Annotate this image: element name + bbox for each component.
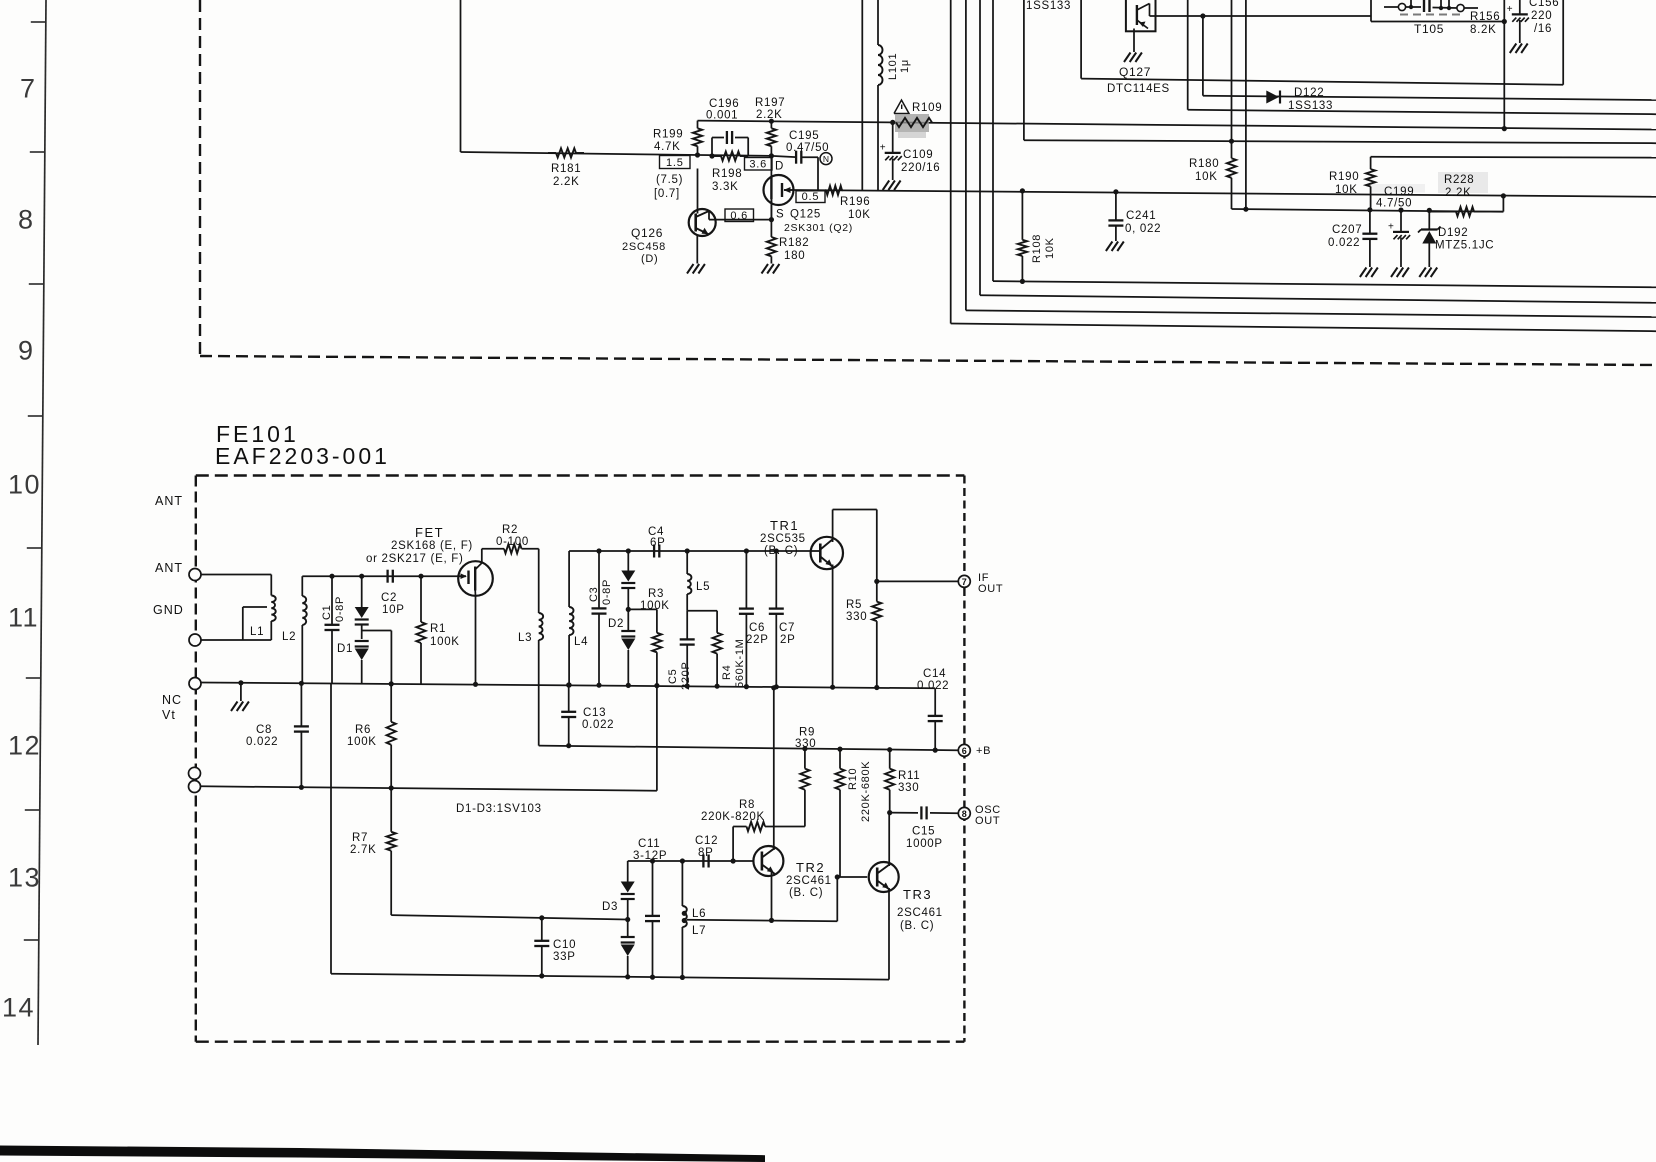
svg-text:+: +	[1507, 4, 1513, 15]
svg-text:3.6: 3.6	[749, 159, 767, 171]
inductor L3	[518, 549, 543, 746]
svg-text:33P: 33P	[553, 951, 576, 963]
wire first stage top line	[302, 575, 458, 577]
svg-text:+: +	[1388, 222, 1394, 233]
ground Q126	[687, 264, 705, 274]
svg-text:L5: L5	[696, 581, 710, 593]
label C199	[1376, 186, 1414, 210]
svg-text:TR1: TR1	[770, 518, 799, 533]
svg-text:3.3K: 3.3K	[712, 181, 738, 193]
resistor R2	[482, 524, 539, 553]
capacitor C4	[648, 526, 665, 558]
svg-text:R180: R180	[1189, 158, 1219, 170]
wire D2 mid to R3	[626, 607, 657, 612]
resistor R3	[652, 609, 661, 790]
label NC Vt	[162, 693, 182, 722]
diode D122 1SS133	[1266, 87, 1333, 112]
svg-text:C12: C12	[695, 835, 718, 847]
svg-text:2SK168 (E, F): 2SK168 (E, F)	[391, 540, 473, 552]
svg-text:C15: C15	[912, 826, 935, 838]
bottom scan bar	[0, 1146, 765, 1162]
wire C195 down to gate line	[817, 157, 819, 190]
value box 3.6	[745, 158, 773, 171]
wire TR2 collector	[771, 685, 776, 850]
svg-text:0-8P: 0-8P	[334, 596, 346, 622]
capacitor C7	[769, 548, 796, 689]
wire vertical x1246	[1243, 0, 1248, 212]
transistor TR1 2SC535	[760, 518, 843, 569]
svg-text:0.022: 0.022	[917, 680, 949, 692]
wire ANT to L1	[201, 575, 271, 596]
wire bus A x862	[861, 0, 863, 191]
wire TR2 emitter	[769, 872, 774, 923]
ruler line	[38, 0, 46, 1045]
svg-text:8P: 8P	[698, 847, 713, 859]
resistor R182	[767, 220, 809, 264]
resistor R156 label	[1470, 11, 1500, 36]
svg-text:GND: GND	[153, 603, 184, 617]
wire top rail	[698, 121, 1656, 130]
svg-text:R197: R197	[755, 97, 785, 109]
inductor L5	[685, 548, 711, 610]
svg-text:FET: FET	[415, 525, 444, 540]
svg-text:Q126: Q126	[631, 226, 663, 240]
svg-text:0.022: 0.022	[582, 719, 614, 731]
wire OSC line C15	[890, 812, 918, 814]
wire vertical x1188	[1188, 0, 1656, 114]
resistor R198	[712, 152, 748, 194]
resistor R181	[548, 148, 584, 188]
svg-text:/16: /16	[1534, 23, 1552, 35]
resistor R1	[416, 574, 459, 684]
svg-text:(B. C): (B. C)	[900, 920, 934, 932]
svg-text:1000P: 1000P	[906, 838, 943, 850]
svg-text:2.2K: 2.2K	[553, 176, 579, 188]
transistor TR3 2SC461	[869, 862, 943, 932]
resistor R9	[795, 727, 816, 827]
svg-text:ANT: ANT	[155, 494, 183, 508]
svg-text:(B. C): (B. C)	[764, 545, 798, 557]
wire +B line	[539, 746, 965, 751]
svg-text:R190: R190	[1329, 171, 1359, 183]
svg-text:R156: R156	[1470, 11, 1500, 23]
svg-text:C10: C10	[553, 939, 576, 951]
svg-text:0.6: 0.6	[730, 210, 748, 222]
label ANT 1	[155, 494, 183, 508]
svg-text:R109: R109	[912, 102, 942, 114]
ground D192	[1419, 268, 1437, 278]
svg-text:22P: 22P	[746, 634, 769, 646]
svg-text:0.022: 0.022	[1328, 237, 1360, 249]
ground bus terminal branch	[231, 680, 249, 711]
svg-text:4.7K: 4.7K	[654, 141, 680, 153]
svg-text:[0.7]: [0.7]	[654, 188, 680, 200]
svg-text:6P: 6P	[650, 537, 665, 549]
svg-text:DTC114ES: DTC114ES	[1107, 83, 1170, 95]
svg-text:+B: +B	[976, 745, 991, 757]
svg-text:C1: C1	[321, 605, 333, 620]
svg-text:10: 10	[8, 470, 41, 500]
svg-text:1.5: 1.5	[666, 157, 684, 169]
terminal GND	[189, 634, 201, 646]
resistor R228	[1429, 174, 1506, 216]
capacitor C199 electrolytic	[1388, 208, 1410, 268]
svg-text:C14: C14	[923, 668, 946, 680]
capacitor C5	[667, 611, 695, 690]
wire vertical x1203 D122 feed	[1202, 16, 1204, 96]
label FE101	[216, 421, 299, 447]
svg-text:R9: R9	[799, 727, 815, 739]
svg-text:R182: R182	[779, 237, 809, 249]
svg-text:R1: R1	[430, 623, 446, 635]
wire IF OUT line	[874, 579, 958, 584]
svg-text:D122: D122	[1294, 87, 1324, 99]
wire bus vertical x980	[980, 0, 1656, 303]
capacitor C3	[588, 548, 613, 687]
capacitor C14	[917, 668, 949, 753]
wire C199 row line	[1232, 209, 1504, 212]
svg-text:0.022: 0.022	[246, 736, 278, 748]
svg-text:2SC535: 2SC535	[760, 533, 806, 545]
warning triangle	[894, 100, 909, 114]
svg-text:R6: R6	[355, 724, 371, 736]
svg-text:L7: L7	[692, 925, 706, 937]
label D1-D3 1SV103	[456, 803, 542, 815]
wire TR3 emitter	[888, 888, 890, 980]
svg-text:R2: R2	[502, 524, 518, 536]
wire vertical x1024 to R180 line	[1023, 0, 1025, 140]
svg-text:C241: C241	[1126, 210, 1156, 222]
svg-text:ANT: ANT	[155, 561, 183, 575]
svg-text:C3: C3	[588, 587, 600, 602]
resistor R180	[1189, 158, 1236, 209]
svg-text:1SS133: 1SS133	[1288, 100, 1333, 112]
capacitor C156 electrolytic	[1507, 0, 1559, 43]
svg-text:13: 13	[8, 863, 41, 893]
terminal NC2	[189, 767, 201, 779]
wire vertical x1081	[1080, 0, 1082, 79]
label ANT 2	[155, 561, 183, 575]
resistor R196	[825, 186, 871, 221]
resistor R109 highlighted	[888, 102, 942, 138]
svg-text:12: 12	[8, 731, 41, 761]
resistor R8	[701, 799, 805, 864]
svg-text:Vt: Vt	[162, 708, 176, 722]
wire D122 line	[1203, 96, 1656, 100]
svg-text:or 2SK217 (E, F): or 2SK217 (E, F)	[366, 553, 463, 565]
svg-text:2SC458: 2SC458	[622, 241, 666, 253]
svg-text:2SC461: 2SC461	[786, 875, 832, 887]
terminal 8 OSC OUT	[958, 804, 1001, 827]
svg-text:S: S	[776, 209, 784, 221]
capacitor C207	[1328, 207, 1377, 267]
transistor FET 2SK168	[366, 525, 493, 596]
value box 0.6	[725, 209, 754, 222]
inductor L101	[878, 0, 911, 191]
node R199 bottom	[695, 152, 700, 157]
svg-text:D: D	[775, 161, 784, 173]
svg-text:R8: R8	[739, 799, 755, 811]
wire TR2 base line	[628, 860, 754, 862]
varactor D3	[602, 861, 635, 979]
ground R182	[762, 264, 780, 274]
gate line to right edge	[794, 190, 1656, 197]
svg-text:6: 6	[962, 746, 967, 756]
svg-text:R7: R7	[352, 832, 368, 844]
wire Q126 collector row 0.6	[709, 199, 774, 222]
label 1SS133 top	[1026, 0, 1071, 12]
svg-text:8: 8	[18, 205, 35, 235]
svg-text:7: 7	[20, 74, 37, 104]
svg-text:R198: R198	[712, 168, 742, 180]
label D pin	[775, 161, 784, 173]
svg-text:560K-1M: 560K-1M	[734, 638, 746, 688]
wire main line R181 row	[461, 152, 796, 157]
svg-text:0-100: 0-100	[496, 536, 529, 548]
svg-text:D192: D192	[1438, 227, 1468, 239]
capacitor C196 loop	[706, 98, 748, 159]
svg-text:OUT: OUT	[978, 583, 1003, 595]
highlight R228 area	[1370, 172, 1488, 193]
svg-text:10K: 10K	[1335, 184, 1358, 196]
svg-text:0.5: 0.5	[802, 191, 820, 203]
resistor R190	[1329, 157, 1656, 210]
svg-text:TR3: TR3	[903, 887, 932, 902]
label R3 100K	[640, 588, 670, 612]
svg-text:NC: NC	[162, 693, 182, 707]
node C109 top	[890, 120, 895, 125]
svg-text:C13: C13	[583, 707, 606, 719]
svg-text:(7.5): (7.5)	[656, 174, 683, 186]
wire vertical x1504	[1502, 0, 1507, 131]
inductor L2	[282, 576, 307, 683]
resistor R199	[653, 121, 702, 155]
svg-text:C7: C7	[779, 622, 795, 634]
svg-text:C156: C156	[1529, 0, 1559, 9]
wire D1 mid branch	[362, 631, 392, 684]
svg-text:R3: R3	[648, 588, 664, 600]
svg-text:L1: L1	[250, 626, 264, 638]
transistor TR2 2SC461	[753, 846, 831, 899]
svg-text:TR2: TR2	[796, 860, 825, 875]
svg-text:0, 022: 0, 022	[1125, 223, 1161, 235]
svg-text:8.2K: 8.2K	[1470, 24, 1496, 36]
svg-text:100K: 100K	[430, 636, 460, 648]
wire R7 to D3 line	[391, 915, 627, 919]
wire second stage top line	[569, 551, 811, 607]
svg-text:C207: C207	[1332, 224, 1362, 236]
wire vertical x1232 R180 column	[1229, 0, 1234, 158]
wire vertical into R181 line	[460, 0, 462, 152]
resistor R11	[885, 747, 920, 815]
wire TR3 collector	[888, 813, 890, 866]
svg-text:0.001: 0.001	[706, 110, 738, 122]
svg-text:C6: C6	[749, 622, 765, 634]
upper block dashed border	[200, 0, 1656, 365]
svg-text:330: 330	[898, 782, 919, 794]
wire R180 top line	[1024, 140, 1656, 143]
svg-text:2.2K: 2.2K	[756, 109, 782, 121]
svg-text:C196: C196	[709, 98, 739, 110]
ground C207	[1360, 268, 1378, 278]
wire T105 bottom row R156	[1371, 0, 1507, 24]
svg-text:R108: R108	[1031, 234, 1043, 263]
wire TR1 emitter	[830, 565, 835, 690]
wire C1 return column	[330, 683, 332, 973]
value box 1.5	[654, 156, 690, 201]
label GND	[153, 603, 184, 617]
zener D192 MTZ5.1JC	[1418, 208, 1494, 267]
wire C156 feed line	[1081, 79, 1563, 85]
capacitor C6	[739, 548, 769, 689]
capacitor C2	[381, 570, 405, 616]
wire Q126 emitter	[696, 236, 698, 264]
svg-text:(B. C): (B. C)	[789, 887, 823, 899]
svg-text:R228: R228	[1444, 174, 1474, 186]
transistor Q125 2SK301 FET	[764, 156, 853, 234]
svg-text:L101: L101	[887, 53, 899, 80]
wire bus vertical x951	[951, 0, 1656, 331]
svg-text:N: N	[823, 154, 829, 164]
ground C156	[1510, 44, 1528, 54]
inductor L6 L7	[680, 858, 706, 980]
svg-text:C195: C195	[789, 130, 819, 142]
wire R196 line to right edge	[843, 190, 1656, 196]
svg-text:100K: 100K	[347, 736, 377, 748]
svg-text:R181: R181	[551, 163, 581, 175]
svg-text:C2: C2	[381, 592, 397, 604]
svg-text:D3: D3	[602, 901, 618, 913]
svg-text:Q127: Q127	[1119, 65, 1151, 79]
svg-text:11: 11	[8, 603, 39, 633]
svg-text:220/16: 220/16	[901, 162, 940, 174]
terminal 6 +B	[958, 744, 991, 757]
svg-text:C11: C11	[638, 838, 660, 850]
svg-text:D2: D2	[608, 618, 624, 630]
wire Q127 collector to T105	[1200, 13, 1371, 18]
wire bus to C14	[934, 688, 936, 715]
capacitor C13	[561, 682, 614, 748]
svg-text:C109: C109	[903, 149, 933, 161]
svg-text:C199: C199	[1384, 186, 1414, 198]
svg-text:14: 14	[2, 993, 35, 1023]
ground C241	[1106, 242, 1124, 252]
svg-text:+: +	[880, 143, 886, 154]
svg-text:10K: 10K	[1195, 171, 1218, 183]
resistor R4	[713, 611, 747, 689]
svg-text:R10: R10	[847, 768, 859, 790]
capacitor C241	[1108, 189, 1161, 241]
svg-text:OUT: OUT	[975, 815, 1000, 827]
capacitor C12	[695, 835, 718, 868]
transformer T105	[1384, 0, 1478, 36]
transistor Q127 DTC114ES	[1107, 0, 1203, 95]
resistor R108	[1018, 188, 1056, 284]
svg-text:2.2K: 2.2K	[1445, 187, 1471, 199]
svg-text:1SS133: 1SS133	[1026, 0, 1071, 12]
capacitor C10	[534, 915, 576, 978]
svg-text:9: 9	[18, 336, 35, 366]
svg-text:220: 220	[1531, 10, 1552, 22]
svg-text:C8: C8	[256, 724, 272, 736]
wire L5 to R4	[687, 610, 717, 612]
terminal ANT	[189, 569, 201, 581]
svg-text:7: 7	[962, 577, 967, 587]
svg-text:10K: 10K	[848, 209, 871, 221]
svg-text:L6: L6	[692, 908, 706, 920]
svg-text:330: 330	[795, 738, 816, 750]
terminal bus	[189, 678, 201, 690]
capacitor C8	[246, 681, 309, 790]
ground C199	[1391, 268, 1409, 278]
svg-text:330: 330	[846, 611, 867, 623]
svg-text:100K: 100K	[640, 600, 670, 612]
FE101 dashed box	[196, 476, 965, 1042]
svg-text:R4: R4	[721, 665, 733, 680]
svg-text:Q125: Q125	[790, 209, 821, 221]
svg-text:220K-820K: 220K-820K	[701, 811, 765, 823]
svg-text:2.7K: 2.7K	[350, 844, 376, 856]
wire Q127 emitter ground	[1124, 29, 1142, 63]
ruler numbers	[2, 74, 41, 1023]
svg-text:10K: 10K	[1044, 237, 1056, 259]
label C11 3-12P	[633, 838, 667, 862]
svg-text:180: 180	[784, 250, 805, 262]
wire bottom return line	[331, 974, 889, 980]
svg-text:R11: R11	[898, 770, 920, 782]
varactor D1	[337, 574, 369, 684]
svg-text:2SK301 (Q2): 2SK301 (Q2)	[784, 222, 853, 234]
svg-text:0-8P: 0-8P	[601, 579, 613, 605]
svg-text:MTZ5.1JC: MTZ5.1JC	[1435, 240, 1494, 252]
svg-text:R199: R199	[653, 129, 683, 141]
svg-text:2SC461: 2SC461	[897, 907, 943, 919]
wire GND terminal to L1	[201, 639, 271, 641]
svg-text:R196: R196	[840, 196, 870, 208]
svg-text:D1: D1	[337, 643, 353, 655]
svg-text:(D): (D)	[641, 253, 658, 265]
wire bus vertical x993	[993, 0, 1656, 287]
wire main bus	[201, 683, 935, 689]
resistor R197	[755, 97, 785, 158]
ground C109	[883, 181, 901, 191]
capacitor C11	[645, 858, 660, 979]
inductor L1	[243, 596, 276, 641]
wire TR1 collector	[833, 510, 877, 582]
svg-text:3-12P: 3-12P	[633, 850, 667, 862]
resistor R10	[835, 747, 872, 878]
svg-text:T105: T105	[1414, 22, 1444, 36]
capacitor C1	[321, 574, 346, 684]
terminal 7 IF OUT	[958, 572, 1003, 595]
svg-text:C5: C5	[667, 669, 679, 684]
capacitor C195	[786, 130, 829, 164]
wire vertical x1563 C156 box	[1562, 0, 1564, 85]
capacitor C109 electrolytic	[880, 122, 941, 180]
value box 0.5	[796, 191, 825, 203]
svg-text:L2: L2	[282, 631, 296, 643]
transistor Q126 2SC458	[622, 169, 716, 266]
wire Vt line	[201, 786, 657, 790]
wire FET source	[473, 596, 478, 687]
varactor D2	[608, 548, 635, 688]
ruler ticks	[24, 22, 46, 940]
svg-text:2P: 2P	[780, 634, 795, 646]
svg-text:8: 8	[962, 809, 967, 819]
svg-text:EAF2203-001: EAF2203-001	[215, 443, 390, 469]
resistor R6	[347, 681, 396, 788]
svg-text:1μ: 1μ	[899, 59, 911, 73]
